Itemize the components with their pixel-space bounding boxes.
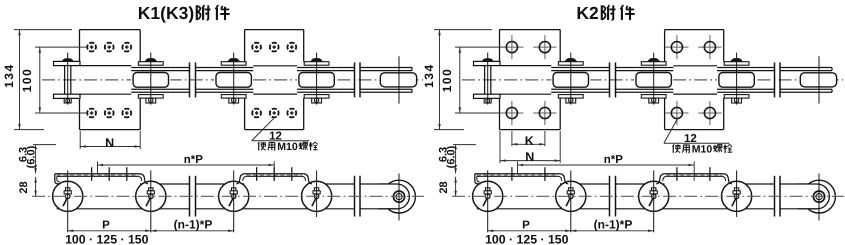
K2 bolt hole, plate2 #3: [665, 101, 688, 125]
title: K2 attachment: [576, 3, 634, 23]
K2 bolt hole, plate1 #2: [533, 35, 556, 59]
K2 bolt hole, plate2 #1: [665, 35, 688, 59]
K1 bolt hole, plate1 #6: [122, 109, 131, 118]
K2 bolt hole, plate2 #2: [698, 35, 721, 59]
right diagram: chain with K2 attachment plates, top and side views: [422, 30, 844, 245]
svg-text:N: N: [105, 136, 114, 150]
attachment bolt ticks on side-view plate 1 (right diagram): [512, 167, 545, 181]
svg-text:M10: M10: [277, 141, 298, 153]
K1 bolt hole, plate2 #2: [270, 43, 279, 52]
dimension N (plate width, right diagram): [500, 131, 560, 164]
dimension K (bolt hole spacing, right diagram): [512, 131, 545, 148]
left diagram: chain with K1(K3) attachment plates, top and side views: [2, 30, 424, 245]
dimension N (plate width, left diagram): [80, 131, 140, 150]
K1 bolt hole, plate2 #6: [287, 109, 296, 118]
K2 bolt hole, plate1 #1: [500, 35, 523, 59]
K1 bolt hole, plate1 #2: [105, 43, 114, 52]
K2 bolt hole, plate2 #4: [698, 101, 721, 125]
svg-text:N: N: [525, 150, 534, 164]
svg-text:K2: K2: [576, 3, 599, 23]
K2 bolt hole, plate1 #4: [533, 101, 556, 125]
K1 bolt hole, plate1 #3: [122, 43, 131, 52]
K1 bolt hole, plate2 #4: [252, 109, 261, 118]
K1 bolt hole, plate1 #4: [87, 109, 96, 118]
svg-text:K: K: [525, 134, 534, 148]
svg-text:K1(K3): K1(K3): [138, 3, 194, 23]
K1 bolt hole, plate1 #1: [87, 43, 96, 52]
leader and note: 12, use M10 bolts (left diagram): [252, 118, 318, 153]
K2 bolt hole, plate1 #3: [500, 101, 523, 125]
attachment bolt ticks on side-view plate 2 (right diagram): [677, 167, 710, 181]
svg-text:M10: M10: [692, 143, 713, 155]
attachment bolt ticks on side-view plate 1 (left diagram): [92, 167, 127, 181]
K1 bolt hole, plate1 #5: [105, 109, 114, 118]
K1 bolt hole, plate2 #1: [252, 43, 261, 52]
K1 bolt hole, plate2 #3: [287, 43, 296, 52]
attachment bolt ticks on side-view plate 2 (left diagram): [257, 167, 292, 181]
leader and note: 12, use M10 bolts (right diagram): [664, 119, 732, 156]
title: K1(K3) attachment: [138, 3, 230, 23]
K1 bolt hole, plate2 #5: [270, 109, 279, 118]
